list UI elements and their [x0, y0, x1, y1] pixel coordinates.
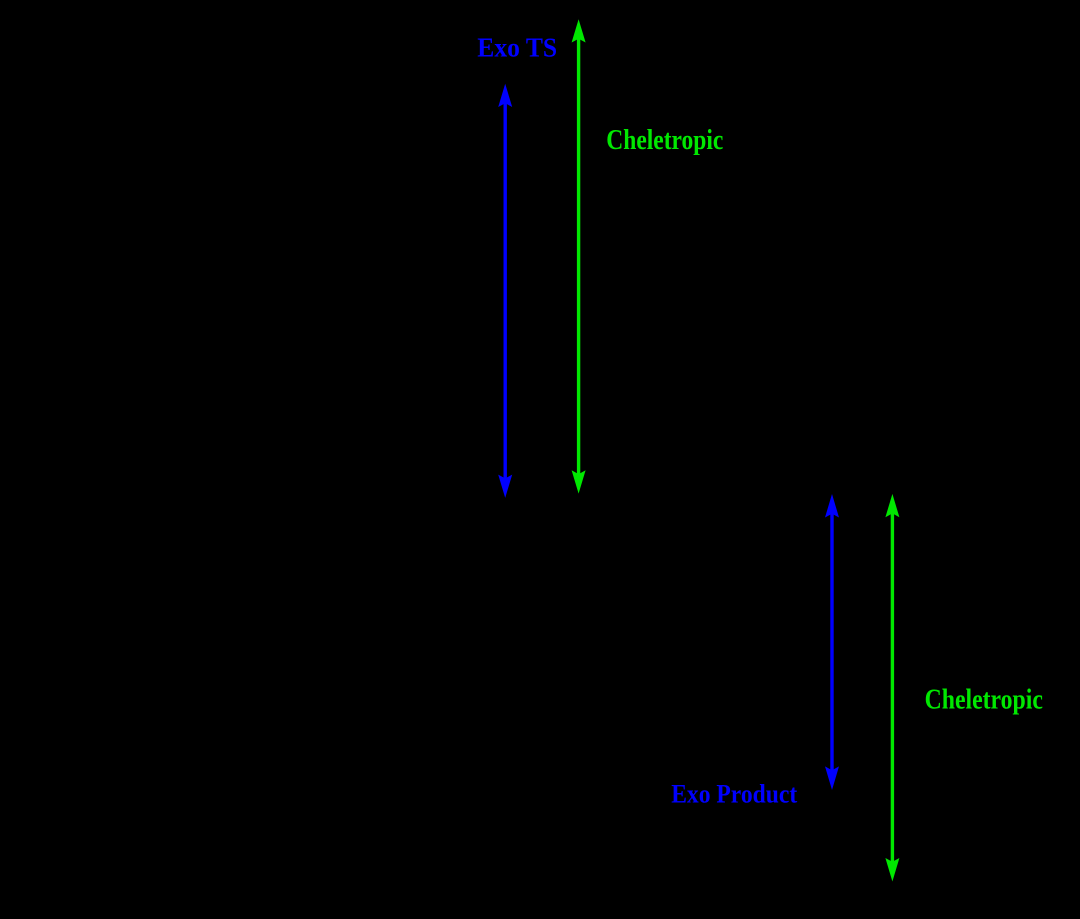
- svg-text:Exo TS: Exo TS: [477, 33, 557, 63]
- node D: green arrowhead down (Cheletropic bottom): [572, 470, 586, 493]
- node F: blue arrowhead down (Exo Product bottom): [825, 766, 839, 790]
- node E: blue arrowhead up (Exo Product top): [825, 494, 839, 518]
- wire: blue double arrow Exo Product energy shaft: [830, 514, 833, 771]
- wire: green double arrow Cheletropic barrier shaft: [577, 39, 580, 475]
- svg-text:Cheletropic: Cheletropic: [606, 125, 723, 156]
- svg-text:Exo Product: Exo Product: [671, 779, 797, 809]
- node G: green arrowhead up (Cheletropic product top): [885, 494, 899, 517]
- node C: green arrowhead up (Cheletropic top): [572, 19, 586, 42]
- node B: blue arrowhead down (Exo TS bottom): [498, 475, 512, 498]
- svg-text:Cheletropic: Cheletropic: [925, 685, 1043, 716]
- node H: green arrowhead down (Cheletropic product bottom): [885, 858, 899, 882]
- wire: green double arrow Cheletropic product shaft: [891, 513, 894, 862]
- wire: blue double arrow Exo TS barrier shaft: [504, 103, 507, 479]
- node A: blue arrowhead up (Exo TS top): [498, 84, 512, 107]
